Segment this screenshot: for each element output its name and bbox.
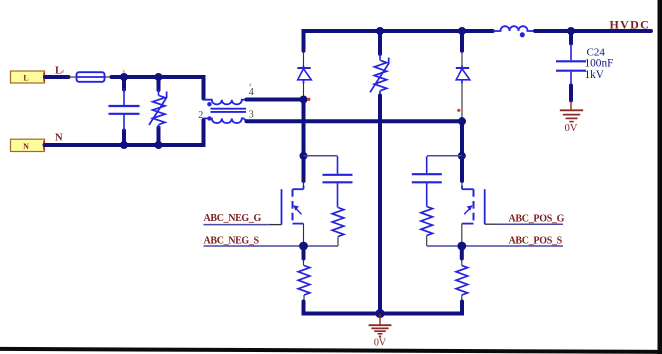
transistor Q2 xyxy=(461,181,463,186)
svg-text:N: N xyxy=(55,133,63,144)
wire pin4 to left column xyxy=(247,98,304,102)
junction N rail / varistor xyxy=(155,141,163,149)
junction left source node xyxy=(299,242,308,251)
junction right source node xyxy=(457,242,466,251)
capacitor C1 (left snubber) xyxy=(337,156,339,174)
wire L rail to choke xyxy=(112,77,204,99)
transformer T1 polarity dot top xyxy=(207,102,211,106)
varistor RV1 xyxy=(157,77,161,90)
inductor L2 polarity dot xyxy=(520,32,525,37)
junction top rail / C24 xyxy=(567,27,575,35)
junction pin4 / left column xyxy=(300,96,308,104)
varistor RV2 xyxy=(378,31,382,54)
wire right column xyxy=(460,119,464,181)
wire pin3 to right column xyxy=(247,119,463,123)
capacitor C24 xyxy=(569,31,573,44)
wire ABC_POS_S xyxy=(427,245,563,247)
frame bottom border xyxy=(0,347,662,354)
resistor R1 (left snubber) xyxy=(332,208,344,237)
svg-text:1kV: 1kV xyxy=(585,69,605,81)
wire top rail left segment xyxy=(304,31,493,51)
wire thin fuse right lead xyxy=(105,76,113,78)
ground 0V middle xyxy=(379,314,381,325)
wire N rail to choke xyxy=(45,120,204,145)
junction top rail / varistor column xyxy=(376,27,384,35)
ground 0V right xyxy=(570,101,572,111)
terminal L xyxy=(11,71,45,83)
wire center column xyxy=(378,96,382,314)
resistor R2 (right snubber) xyxy=(421,207,433,236)
capacitor CX1 (X-cap) xyxy=(122,77,126,90)
diode D2 xyxy=(461,51,463,66)
resistor R3 (left lower) xyxy=(303,259,305,266)
frame right border xyxy=(658,0,662,354)
svg-text:HVDC: HVDC xyxy=(610,18,651,32)
resistor R4 (right lower) xyxy=(461,259,463,266)
junction pin3 / right column xyxy=(458,117,466,125)
svg-text:4: 4 xyxy=(249,87,254,98)
wire bottom rail xyxy=(304,302,463,314)
wire right snubber tap xyxy=(427,155,462,157)
wire top rail right segment (HVDC) xyxy=(535,29,651,33)
diode D1 xyxy=(303,51,305,66)
svg-text:0V: 0V xyxy=(374,338,387,349)
transformer T1 polarity dot bottom xyxy=(207,116,211,120)
junction bottom rail / ground xyxy=(375,309,384,318)
svg-text:L: L xyxy=(55,66,62,77)
transformer T1 core xyxy=(211,108,247,110)
wire ABC_POS_G xyxy=(485,223,497,225)
svg-text:100nF: 100nF xyxy=(585,58,614,70)
svg-text:ABC_POS_G: ABC_POS_G xyxy=(509,213,565,224)
svg-text:ABC_POS_S: ABC_POS_S xyxy=(509,235,563,246)
wire L terminal to fuse xyxy=(45,75,69,79)
transistor Q1 xyxy=(303,181,305,186)
wire ABC_NEG_S xyxy=(204,245,339,247)
terminal N xyxy=(11,139,45,151)
svg-text:2: 2 xyxy=(198,110,203,121)
junction left column / snubber tap xyxy=(300,152,308,160)
wire left snubber tap xyxy=(304,155,338,157)
junction top rail / right diode column xyxy=(458,27,466,35)
wire left column xyxy=(302,98,306,181)
fuse F1 xyxy=(77,72,105,82)
junction right column / snubber tap xyxy=(458,152,466,160)
transformer T1 winding top (pins 1-4) xyxy=(204,100,247,105)
junction L rail / varistor xyxy=(155,73,163,81)
svg-text:0V: 0V xyxy=(565,123,578,134)
inductor L2 xyxy=(493,26,535,31)
wire ABC_NEG_G xyxy=(204,224,271,226)
junction N rail / X-cap xyxy=(120,141,128,149)
capacitor C2 (right snubber) xyxy=(426,156,428,173)
wire thin fuse left lead xyxy=(68,76,77,78)
transformer T1 winding bottom (pins 2-3) xyxy=(204,118,248,123)
svg-text:ABC_NEG_S: ABC_NEG_S xyxy=(204,235,260,246)
svg-text:3: 3 xyxy=(249,110,254,121)
svg-text:ABC_NEG_G: ABC_NEG_G xyxy=(204,213,262,224)
svg-text:N: N xyxy=(23,142,29,151)
svg-text:L: L xyxy=(23,73,28,82)
junction L rail / X-cap xyxy=(120,73,128,81)
